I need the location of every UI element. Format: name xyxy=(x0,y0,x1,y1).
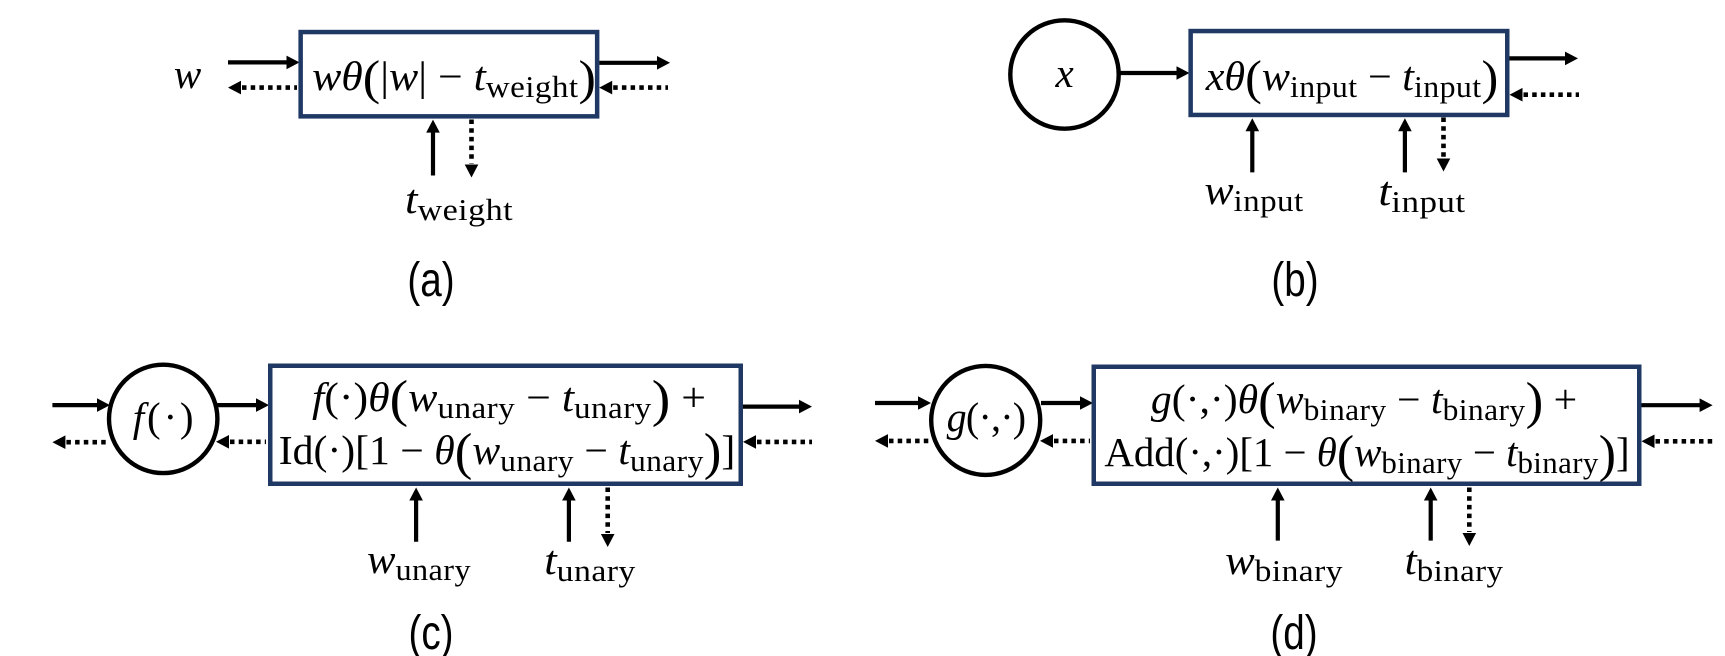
formula line1 f(.)theta(w_unary-t_unary)+ (c) xyxy=(312,377,706,418)
operator box (a) xyxy=(301,32,598,116)
label t_binary (d) xyxy=(1405,540,1504,581)
caption (a) xyxy=(407,256,454,303)
wire: dotted gradient-in arrow (c) xyxy=(743,435,812,449)
wire: solid arrow g to box (d) xyxy=(1041,396,1093,410)
label w_unary (c) xyxy=(367,539,471,580)
node label x (b) xyxy=(1055,53,1073,94)
wire: solid input arrow to g (d) xyxy=(875,396,931,410)
wire: dotted arrow box to f (c) xyxy=(216,435,266,449)
caption (d) xyxy=(1270,609,1317,656)
label w_binary (d) xyxy=(1225,540,1343,581)
wire: dotted backward arrow from g (d) xyxy=(875,434,929,448)
node label f(.) (c) xyxy=(133,397,197,438)
wire: solid output arrow (d) xyxy=(1642,398,1713,412)
label w_input (b) xyxy=(1204,170,1303,211)
wire: dotted gradient arrow down (d) xyxy=(1463,488,1477,547)
wire: dotted backward arrow box to w (a) xyxy=(228,81,297,95)
wire: solid arrow t_binary to box (d) xyxy=(1424,488,1438,541)
wire: solid arrow w_unary to box (c) xyxy=(409,488,423,542)
wire: dotted backward arrow from f (c) xyxy=(52,435,107,449)
wire: solid arrow f to box (c) xyxy=(218,398,270,412)
wire: solid arrow x to box (b) xyxy=(1119,66,1190,80)
wire: solid arrow t_unary to box (c) xyxy=(562,488,576,542)
input node circle (b) xyxy=(1010,20,1118,128)
wire: dotted gradient-in arrow (a) xyxy=(599,81,668,95)
label t_weight (a) xyxy=(405,179,513,220)
caption (c) xyxy=(408,609,453,656)
formula w theta(|w|-t_weight) (a) xyxy=(312,56,596,97)
wire: dotted gradient-in arrow (b) xyxy=(1510,88,1580,102)
formula line2 Add(.,.)[1-theta(w_binary-t_binary)] (d) xyxy=(1104,432,1629,473)
wire: solid forward arrow w to box (a) xyxy=(228,56,300,70)
node label w (a) xyxy=(174,54,201,95)
wire: solid output arrow (b) xyxy=(1510,52,1579,66)
wire: dotted arrow box to g (d) xyxy=(1040,434,1090,448)
operator box (d) xyxy=(1094,367,1640,484)
operator box (c) xyxy=(270,366,741,484)
formula line2 Id(.)[1-theta(w_unary-t_unary)] (c) xyxy=(278,430,735,471)
unary function node f (c) xyxy=(109,365,217,473)
wire: solid arrow w_binary to box (d) xyxy=(1271,488,1285,541)
wire: solid input arrow to f (c) xyxy=(52,398,110,412)
wire: dotted gradient arrow down (a) xyxy=(465,120,479,178)
wire: solid output arrow (a) xyxy=(599,56,670,70)
wire: dotted gradient arrow down (c) xyxy=(601,488,615,548)
label t_unary (c) xyxy=(544,540,636,581)
wire: solid arrow t_input to box (b) xyxy=(1398,118,1412,172)
caption (b) xyxy=(1271,256,1318,303)
wire: dotted gradient arrow down (b) xyxy=(1437,118,1451,172)
wire: solid output arrow (c) xyxy=(743,400,812,414)
wire: solid arrow t_weight to box (a) xyxy=(426,120,440,176)
formula x theta(w_input-t_input) (b) xyxy=(1206,56,1499,97)
binary function node g (d) xyxy=(931,366,1040,475)
wire: dotted gradient-in arrow (d) xyxy=(1642,435,1715,449)
formula line1 g(.,.)theta(w_binary-t_binary)+ (d) xyxy=(1151,379,1577,420)
operator box (b) xyxy=(1191,31,1508,115)
label t_input (b) xyxy=(1379,171,1466,212)
wire: solid arrow w_input to box (b) xyxy=(1246,118,1260,172)
node label g(.,.) (d) xyxy=(946,397,1025,438)
